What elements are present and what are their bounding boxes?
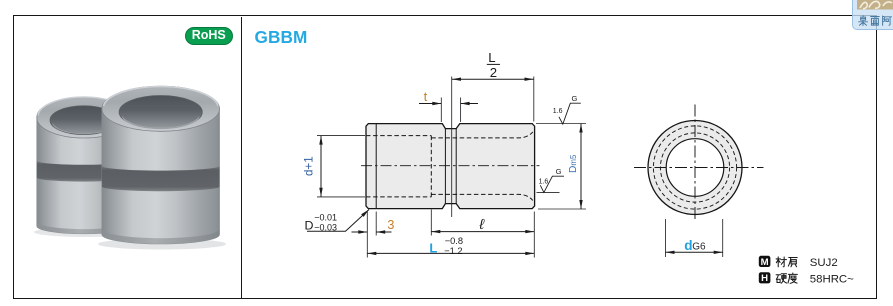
svg-text:t: t xyxy=(424,89,428,104)
hardness row: H icon xyxy=(759,272,771,283)
photo: small rear bushing body xyxy=(37,118,131,234)
photo: shadow under large bushing xyxy=(98,239,226,250)
arrowheads Dm5 xyxy=(579,124,582,133)
extension lines t xyxy=(440,98,442,123)
svg-text:M: M xyxy=(761,257,769,268)
svg-text:G: G xyxy=(556,167,562,176)
svg-text:d+1: d+1 xyxy=(303,156,316,176)
RoHS badge xyxy=(185,27,234,45)
desktop icon overlay top-right xyxy=(852,0,893,30)
arrowheads dG6 xyxy=(666,251,675,254)
hidden bore d top xyxy=(431,132,533,138)
3mm step line xyxy=(375,124,377,209)
GBBM product code title xyxy=(255,27,308,48)
groove right wall xyxy=(455,129,457,204)
surface finish symbol middle (1.6 G) xyxy=(540,176,564,192)
svg-text:D: D xyxy=(305,218,314,232)
extension lines dG6 xyxy=(665,219,667,257)
photo: small bushing top rim xyxy=(37,97,131,138)
dimension line L xyxy=(367,252,534,254)
photo: small bushing bottom edge band xyxy=(37,222,131,234)
dimension line Dm5 xyxy=(580,124,582,210)
svg-text:1.6: 1.6 xyxy=(553,108,563,115)
hidden bore step xyxy=(430,136,432,197)
photo: small bushing bore xyxy=(50,106,118,135)
surface finish symbol top (1.6 G) xyxy=(559,103,581,124)
front view outer circle xyxy=(648,121,742,215)
extension line 3 right xyxy=(375,212,377,236)
hidden bore d bottom xyxy=(431,194,533,200)
hidden bore d+1 bottom xyxy=(366,196,431,198)
svg-text:−0.03: −0.03 xyxy=(314,223,337,233)
photo: shadow under small bushing xyxy=(34,227,138,237)
centerline of side view xyxy=(361,165,540,167)
photo: small bushing groove band xyxy=(37,161,131,182)
arrowheads l xyxy=(431,230,440,233)
extension line L/2 right xyxy=(533,77,535,122)
front view vertical centerline xyxy=(694,105,696,220)
arrowheads L xyxy=(367,252,376,255)
desktop icon thumbnail xyxy=(857,0,893,10)
photo: large bushing bottom edge band xyxy=(102,229,220,244)
svg-text:Dm5: Dm5 xyxy=(568,154,579,173)
extension line L left / 3 left xyxy=(366,212,368,258)
svg-text:−1.2: −1.2 xyxy=(444,246,462,256)
arrowheads d+1 xyxy=(319,136,322,145)
dimension line t (two tails) xyxy=(419,103,441,105)
svg-text:L: L xyxy=(488,50,495,65)
svg-text:−0.01: −0.01 xyxy=(314,213,337,223)
extension line groove center xyxy=(451,77,453,218)
svg-text:SUJ2: SUJ2 xyxy=(810,257,838,269)
svg-text:G: G xyxy=(572,94,578,103)
extension lines d+1 xyxy=(317,135,365,137)
arrowhead D leader xyxy=(361,210,369,217)
photo: large bushing groove band xyxy=(102,166,220,191)
front view chamfer circle outer (hidden) xyxy=(653,126,736,209)
extension line for mid finish symbol xyxy=(537,192,560,194)
extension line L right xyxy=(533,212,535,258)
svg-text:−0.8: −0.8 xyxy=(445,236,463,246)
svg-text:1.6: 1.6 xyxy=(539,178,549,185)
vertical divider between photo and drawing xyxy=(241,17,242,299)
svg-text:3: 3 xyxy=(387,218,394,232)
leader line D xyxy=(307,210,369,232)
arrowheads L/2 xyxy=(452,78,461,81)
front view bore circle xyxy=(666,139,724,197)
hidden bore d+1 top xyxy=(366,135,431,137)
photo: large front bushing body xyxy=(102,109,220,244)
groove left wall xyxy=(444,129,446,204)
arrowheads t xyxy=(432,102,441,105)
front view horizontal centerline xyxy=(634,167,764,169)
dimension line d+1 xyxy=(320,136,322,197)
arrowheads 3 xyxy=(358,230,367,233)
svg-text:58HRC~: 58HRC~ xyxy=(810,274,854,286)
material row: kanji cai zhi xyxy=(776,257,797,267)
extension lines Dm5 xyxy=(536,123,586,125)
dimension line l xyxy=(431,231,534,233)
svg-text:H: H xyxy=(761,273,768,284)
front view chamfer circle inner (hidden) xyxy=(660,133,729,202)
photo: large bushing top rim xyxy=(102,86,220,131)
side view part outline xyxy=(366,124,535,209)
material row: M icon xyxy=(759,256,771,267)
svg-text:L: L xyxy=(429,241,437,256)
svg-text:ℓ: ℓ xyxy=(478,217,485,233)
extension line l left xyxy=(430,210,432,236)
dimension line dG6 xyxy=(666,251,723,253)
hardness row: kanji ying du xyxy=(776,273,797,283)
dimension line 3 (two tails) xyxy=(352,231,368,233)
svg-text:G6: G6 xyxy=(692,242,706,253)
desktop icon label (CJK) xyxy=(858,15,893,27)
photo: large bushing bore xyxy=(119,96,202,129)
svg-text:2: 2 xyxy=(490,65,497,80)
dimension line L/2 xyxy=(452,78,534,80)
